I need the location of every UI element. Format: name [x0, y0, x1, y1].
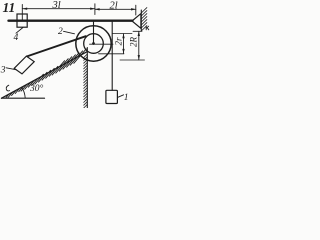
top extension for 2R	[133, 30, 142, 32]
tick at pulley axis	[94, 4, 96, 15]
pulley inner circle	[84, 34, 104, 54]
extension line inner top	[112, 33, 132, 35]
axis centre line	[90, 43, 114, 45]
svg-text:2: 2	[58, 27, 63, 37]
svg-text:3: 3	[0, 66, 6, 76]
svg-text:2l: 2l	[110, 1, 118, 12]
dimension line 2l	[95, 8, 136, 10]
svg-text:4: 4	[14, 33, 19, 43]
block 3	[14, 56, 34, 74]
pin support triangle	[132, 14, 141, 29]
extension tick near wall	[135, 5, 137, 15]
svg-text:11: 11	[3, 0, 16, 15]
incline surface	[2, 52, 87, 98]
retaining wall under incline	[86, 48, 88, 109]
leader for 4	[16, 28, 23, 34]
dimension 2R	[138, 31, 140, 60]
extension line inner bottom	[99, 53, 125, 55]
stray mark near corner	[6, 85, 9, 91]
wall edge top right	[140, 10, 142, 31]
leader for 1	[118, 95, 124, 98]
svg-text:1: 1	[124, 93, 129, 103]
wall hatching top right	[141, 8, 147, 31]
extension line above slider 4	[21, 5, 23, 22]
leader for 2	[64, 31, 75, 34]
svg-text:3l: 3l	[52, 0, 61, 11]
extension line outer bottom	[120, 59, 145, 61]
svg-text:2r: 2r	[114, 37, 124, 46]
slider box 4	[17, 14, 27, 27]
dimension 2r	[123, 34, 125, 54]
string to weight 1	[111, 21, 113, 91]
pulley hanger	[93, 21, 95, 44]
weight box 1	[106, 90, 118, 103]
pulley outer circle	[76, 26, 111, 61]
rod	[9, 20, 133, 22]
pulley axle	[92, 42, 95, 45]
page edge text fragment	[146, 26, 149, 30]
svg-text:30°: 30°	[29, 83, 44, 94]
leader for 3	[6, 68, 16, 70]
wall hatching lower	[84, 54, 88, 108]
svg-text:2R: 2R	[129, 37, 139, 48]
incline hatching	[6, 49, 86, 98]
dimension line 3l	[22, 8, 95, 10]
rope from block 3	[27, 36, 86, 56]
ground line	[2, 97, 45, 99]
angle arc	[22, 87, 26, 98]
